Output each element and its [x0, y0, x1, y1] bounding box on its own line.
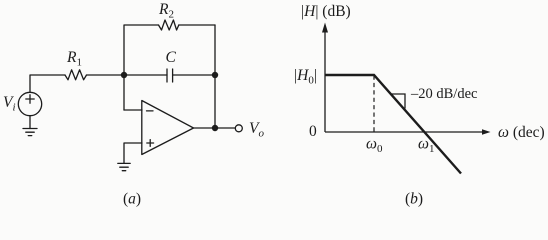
svg-text:C: C: [166, 49, 177, 66]
svg-text:|H| (dB): |H| (dB): [301, 3, 351, 20]
svg-text:(b): (b): [405, 191, 423, 208]
svg-text:|H0|: |H0|: [294, 67, 317, 87]
svg-text:–20 dB/dec: –20 dB/dec: [410, 86, 477, 102]
svg-text:ω (dec): ω (dec): [498, 124, 545, 141]
svg-text:0: 0: [309, 123, 317, 140]
svg-text:(a): (a): [123, 191, 141, 208]
